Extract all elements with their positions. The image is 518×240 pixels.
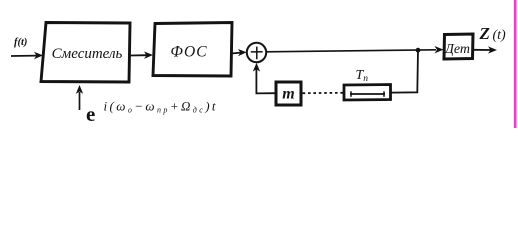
svg-text:e: e — [86, 102, 95, 126]
wire: Тп to m (dashed) — [302, 92, 343, 94]
svg-text:ФОС: ФОС — [170, 44, 207, 61]
block: Дет (detector) — [443, 34, 473, 59]
arrowhead into detector — [435, 46, 444, 53]
svg-text:Смеситель: Смеситель — [52, 46, 123, 62]
wire: input arrow into mixer — [11, 52, 43, 59]
wire: m to summing junction (feedback arrow up) — [253, 63, 276, 94]
delay line Тп — [344, 85, 391, 101]
block: m — [276, 82, 301, 105]
svg-text:m: m — [282, 86, 294, 103]
scan artifact: magenta page edge line — [514, 0, 517, 128]
wire: ФОС to summing junction — [232, 49, 247, 56]
svg-text:Дет: Дет — [443, 42, 470, 57]
junction node — [416, 48, 421, 53]
wire: feedback tap from junction down to delay line — [392, 50, 419, 92]
wire: summing junction to detector — [266, 50, 436, 52]
wire: heterodyne input arrow up into mixer — [76, 85, 83, 110]
wire: mixer to ФОС — [130, 52, 154, 59]
block: ФОС — [153, 23, 232, 77]
block: Смеситель (mixer) — [41, 23, 130, 83]
wire: detector output arrow — [474, 46, 498, 53]
svg-text:(t): (t) — [493, 28, 507, 43]
summing junction — [247, 43, 266, 62]
svg-text:f(t): f(t) — [14, 37, 27, 48]
svg-text:Z: Z — [479, 24, 490, 43]
